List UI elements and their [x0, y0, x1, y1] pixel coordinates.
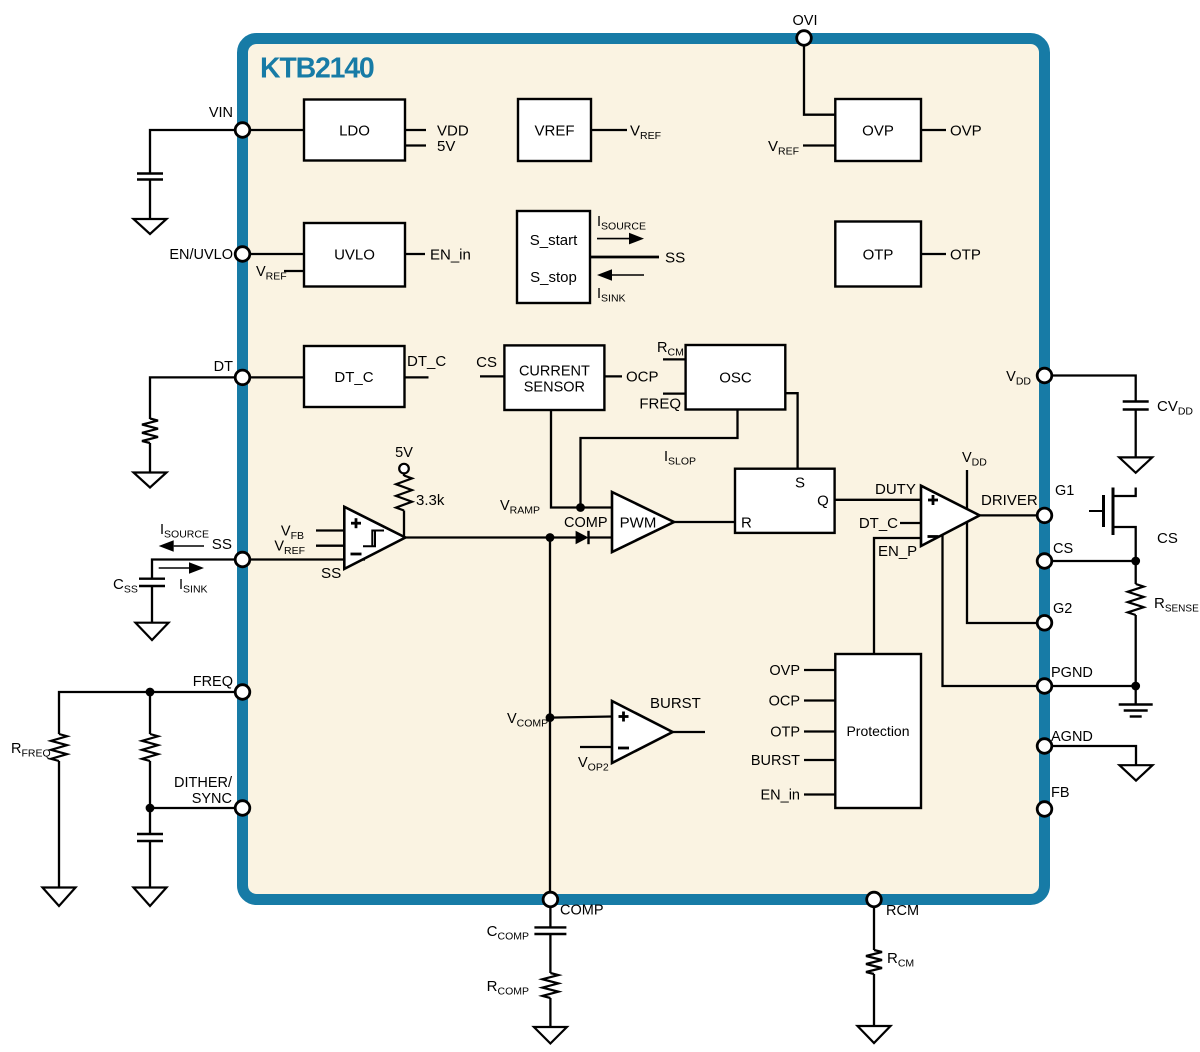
block OVP	[835, 99, 921, 161]
wire DT pin to resistor	[150, 377, 243, 419]
svg-text:CS: CS	[476, 354, 497, 371]
svg-text:Protection: Protection	[846, 723, 909, 739]
svg-text:SYNC: SYNC	[192, 791, 232, 807]
ground AGND	[1120, 765, 1153, 780]
svg-text:CCOMP: CCOMP	[487, 923, 529, 943]
wire VREF stub into OVP	[803, 144, 835, 146]
svg-text:S_stop: S_stop	[530, 269, 577, 286]
wire EN_in input stub to protection	[804, 793, 835, 795]
svg-text:R: R	[741, 515, 752, 532]
ground Css	[136, 623, 169, 640]
svg-text:ISINK: ISINK	[179, 577, 208, 596]
wire CS pin to sense node	[1045, 560, 1136, 562]
wire CVDD to ground	[1135, 410, 1137, 458]
svg-text:OCP: OCP	[626, 369, 659, 386]
svg-text:SS: SS	[665, 250, 685, 267]
schmitt symbol inside comparator	[363, 531, 384, 547]
wire COMP vertical rail	[549, 538, 551, 894]
wire CS stub into current sensor	[480, 375, 504, 377]
junction node PGND	[1131, 682, 1140, 691]
ground DT resistor	[134, 473, 167, 488]
block OSC	[686, 345, 786, 410]
resistor RFREQ	[51, 734, 67, 761]
svg-text:DT: DT	[214, 359, 233, 375]
pin PGND	[1037, 679, 1052, 694]
wire Rsense to PGND node	[1135, 615, 1137, 686]
pin DT	[235, 370, 250, 385]
svg-text:OVP: OVP	[769, 663, 800, 679]
pin RCM	[867, 892, 882, 907]
wire OVI pin into OVP block	[804, 44, 835, 115]
wire driver to PGND pin	[943, 530, 1045, 686]
terminal 5V	[399, 464, 409, 474]
op-amp BURST comparator	[612, 701, 673, 763]
resistor 3.3k pullup	[396, 476, 412, 511]
diode to PWM	[576, 531, 589, 544]
svg-text:BURST: BURST	[650, 695, 701, 712]
wire VRAMP node to PWM input	[581, 506, 613, 508]
svg-text:CSS: CSS	[113, 576, 138, 596]
wire RCM stub into OSC	[663, 358, 686, 360]
wire VOP2 stub into burst comparator	[580, 746, 612, 748]
wire OVP output stub	[921, 129, 946, 131]
wire VDD into driver / G2 rail	[967, 470, 1045, 623]
block OTP	[835, 222, 921, 287]
capacitor dither branch	[137, 833, 163, 835]
op-amp PWM	[612, 492, 674, 552]
svg-text:EN_P: EN_P	[878, 543, 917, 560]
svg-text:EN_in: EN_in	[430, 247, 471, 264]
IC body KTB2140 (bordered block)	[243, 39, 1045, 900]
svg-text:FREQ: FREQ	[193, 674, 233, 690]
wire driver output to G1 pin	[980, 514, 1045, 516]
wire OVP input stub to protection	[804, 669, 835, 671]
wire VREF block output stub	[591, 129, 627, 131]
svg-text:BURST: BURST	[751, 753, 800, 769]
wire DT_C stub into driver	[900, 522, 921, 524]
wire latch Q to driver	[835, 499, 921, 501]
svg-text:PWM: PWM	[620, 515, 657, 532]
svg-text:SENSOR: SENSOR	[524, 380, 585, 396]
svg-text:OTP: OTP	[863, 247, 894, 264]
wire RCM pin down	[873, 906, 875, 950]
arrow ISOURCE from S_start	[597, 238, 629, 240]
ground RCM	[858, 1026, 891, 1043]
wire OCP input stub to protection	[804, 699, 835, 701]
svg-text:DT_C: DT_C	[407, 353, 446, 370]
arrow ISOURCE (out of SS pin)	[174, 545, 204, 547]
pin AGND	[1037, 739, 1052, 754]
block soft-start S_start/S_stop	[517, 211, 590, 303]
transistor external MOSFET drain lead	[1113, 488, 1136, 497]
pin FREQ	[235, 685, 250, 700]
junction node comparator output / COMP	[546, 533, 555, 542]
svg-text:CVDD: CVDD	[1157, 398, 1193, 418]
wire OTP input stub to protection	[804, 730, 835, 732]
svg-text:SS: SS	[321, 565, 341, 582]
wire COMP pin down to Ccomp	[549, 906, 551, 927]
wire FREQ stub into OSC	[663, 392, 686, 394]
junction node VRAMP	[576, 503, 585, 512]
op-amp DRIVER	[921, 486, 980, 546]
wire VCOMP node to burst comparator	[550, 717, 612, 718]
svg-text:RSENSE: RSENSE	[1154, 595, 1199, 615]
wire RFREQ to ground	[58, 761, 60, 888]
wire BURST input stub to protection	[804, 759, 835, 761]
svg-text:S: S	[795, 475, 805, 492]
wire DITHER/SYNC pin to branch	[150, 807, 243, 809]
wire PWM output to latch R	[674, 521, 735, 523]
svg-text:EN_in: EN_in	[761, 788, 801, 804]
wire OCP output stub	[604, 375, 622, 377]
pin SS	[235, 552, 250, 567]
transistor external MOSFET channel bar	[1112, 488, 1115, 536]
svg-text:DUTY: DUTY	[875, 481, 916, 498]
svg-text:Q: Q	[817, 493, 829, 510]
junction node FREQ branch	[146, 688, 155, 697]
wire VIN pin to LDO	[243, 129, 305, 131]
wire PGND pin to earth node	[1045, 685, 1136, 687]
wire OSC ISLOP to VRAMP node	[581, 410, 738, 508]
svg-text:OTP: OTP	[950, 247, 981, 264]
junction node VCOMP	[546, 713, 555, 722]
junction node DITHER/SYNC	[146, 804, 155, 813]
wire FREQ pin to RFREQ branch	[59, 692, 243, 734]
svg-text:3.3k: 3.3k	[416, 492, 445, 509]
svg-text:KTB2140: KTB2140	[260, 53, 374, 85]
pin G1	[1037, 508, 1052, 523]
wire SS pin to Css	[152, 560, 243, 580]
capacitor VIN input	[137, 172, 163, 174]
svg-text:VIN: VIN	[209, 105, 233, 121]
wire Css to ground	[151, 586, 153, 623]
wire VREF stub into comparator	[316, 545, 345, 547]
ground VIN cap	[134, 219, 167, 234]
arrow ISINK (into SS pin)	[159, 567, 189, 569]
wire CS node to Rsense	[1135, 561, 1137, 584]
block DT_C	[304, 346, 405, 407]
svg-text:PGND: PGND	[1051, 665, 1093, 681]
svg-text:DT_C: DT_C	[859, 515, 898, 532]
svg-text:SS: SS	[212, 536, 232, 553]
pin G2	[1037, 616, 1052, 631]
svg-text:RCM: RCM	[887, 950, 914, 970]
wire VDD pin to CVDD	[1045, 376, 1136, 402]
svg-text:ISOURCE: ISOURCE	[160, 522, 209, 541]
svg-text:VDD: VDD	[437, 123, 469, 140]
op-amp soft-start comparator	[344, 507, 405, 569]
svg-text:UVLO: UVLO	[334, 247, 375, 264]
svg-text:RCM: RCM	[886, 903, 919, 919]
pin OVI	[797, 31, 812, 46]
svg-text:OVI: OVI	[793, 13, 818, 29]
junction node CS sense	[1131, 557, 1140, 566]
wire DT resistor to ground	[149, 443, 151, 473]
wire OTP output stub	[921, 253, 946, 255]
wire VIN pin to input cap	[150, 130, 243, 173]
ground earth PGND	[1119, 703, 1153, 705]
wire AGND pin to ground	[1045, 746, 1137, 765]
wire diode to PWM input	[589, 536, 613, 538]
block VREF	[518, 99, 591, 161]
transistor external MOSFET gate bar	[1102, 495, 1105, 527]
wire SS pin to comparator	[243, 558, 366, 560]
svg-text:OVP: OVP	[950, 123, 982, 140]
svg-text:AGND: AGND	[1051, 729, 1093, 745]
arrow ISINK into S_stop	[612, 274, 644, 276]
wire RCM resistor to ground	[873, 974, 875, 1026]
svg-text:RCOMP: RCOMP	[487, 978, 529, 998]
resistor RSENSE	[1128, 584, 1144, 615]
wire DT pin to DT_C block	[243, 376, 305, 378]
resistor RCM	[866, 950, 882, 974]
svg-text:COMP: COMP	[560, 903, 604, 919]
capacitor CCOMP	[534, 926, 566, 928]
svg-text:5V: 5V	[437, 138, 455, 155]
resistor RCOMP	[542, 973, 558, 998]
wire EN_P from protection to driver	[874, 538, 921, 654]
wire COMP node to diode	[550, 536, 576, 538]
pin VIN	[235, 123, 250, 138]
resistor DT	[142, 419, 158, 444]
pin VDD	[1037, 368, 1052, 383]
wire LDO output VDD stub	[405, 129, 426, 131]
wire dither branch down	[149, 692, 151, 734]
svg-text:G1: G1	[1055, 483, 1074, 499]
wire UVLO output stub	[405, 253, 425, 255]
wire current sensor to VRAMP node	[551, 410, 581, 508]
svg-text:CS: CS	[1157, 530, 1178, 547]
wire VIN cap to ground	[149, 180, 151, 220]
wire OSC to SR latch S input	[785, 393, 797, 469]
wire dither cap to ground	[149, 841, 151, 888]
svg-text:OCP: OCP	[769, 694, 800, 710]
wire EN/UVLO pin to UVLO	[243, 253, 305, 255]
wire pullup resistor to comparator output	[403, 511, 405, 538]
ground RCOMP	[534, 1027, 567, 1044]
pin COMP	[543, 892, 558, 907]
svg-text:OVP: OVP	[862, 123, 894, 140]
svg-text:S_start: S_start	[530, 232, 578, 249]
block SR latch	[735, 469, 835, 533]
wire DT_C output stub	[405, 376, 429, 378]
wire 5V terminal to pullup resistor	[403, 473, 405, 476]
wire burst comparator output stub	[673, 731, 705, 733]
wire PGND node to earth	[1135, 686, 1137, 704]
ground dither branch	[134, 888, 167, 907]
svg-text:5V: 5V	[395, 445, 413, 461]
capacitor CSS	[139, 578, 165, 580]
resistor dither branch	[142, 734, 158, 761]
svg-text:DT_C: DT_C	[334, 369, 373, 386]
svg-text:RFREQ: RFREQ	[11, 741, 51, 760]
wire Rcomp to ground	[549, 998, 551, 1027]
svg-text:OTP: OTP	[770, 725, 800, 741]
block Protection	[835, 654, 921, 808]
block CURRENT SENSOR	[504, 345, 604, 410]
wire SS from soft-start box	[590, 256, 659, 259]
svg-text:G2: G2	[1053, 601, 1072, 617]
svg-text:CURRENT: CURRENT	[519, 364, 590, 380]
wire VREF stub into UVLO	[284, 270, 304, 272]
wire VFB stub into comparator	[316, 529, 345, 531]
pin DITHER/SYNC	[235, 801, 250, 816]
capacitor CVDD	[1123, 400, 1149, 402]
block UVLO	[304, 223, 405, 287]
svg-text:COMP: COMP	[564, 515, 608, 531]
wire LDO output 5V stub	[405, 144, 426, 146]
svg-text:FREQ: FREQ	[639, 396, 681, 413]
svg-text:EN/UVLO: EN/UVLO	[169, 247, 233, 263]
pin CS	[1037, 554, 1052, 569]
svg-text:CS: CS	[1053, 541, 1073, 557]
pin EN/UVLO	[235, 247, 250, 262]
svg-text:DITHER/: DITHER/	[174, 775, 233, 791]
svg-text:DRIVER: DRIVER	[981, 492, 1038, 509]
wire comparator output to COMP node	[405, 536, 550, 538]
svg-text:LDO: LDO	[339, 123, 370, 140]
svg-text:VREF: VREF	[534, 123, 574, 140]
wire Ccomp to Rcomp	[549, 934, 551, 973]
svg-text:OSC: OSC	[719, 370, 752, 387]
ground RFREQ	[43, 888, 76, 907]
svg-text:FB: FB	[1051, 785, 1070, 801]
transistor external MOSFET source lead	[1113, 527, 1136, 561]
transistor external MOSFET gate stub	[1089, 510, 1104, 512]
pin FB	[1037, 802, 1052, 817]
ground CVDD	[1119, 457, 1152, 472]
block LDO	[304, 100, 405, 161]
wire dither resistor to cap	[149, 761, 151, 834]
